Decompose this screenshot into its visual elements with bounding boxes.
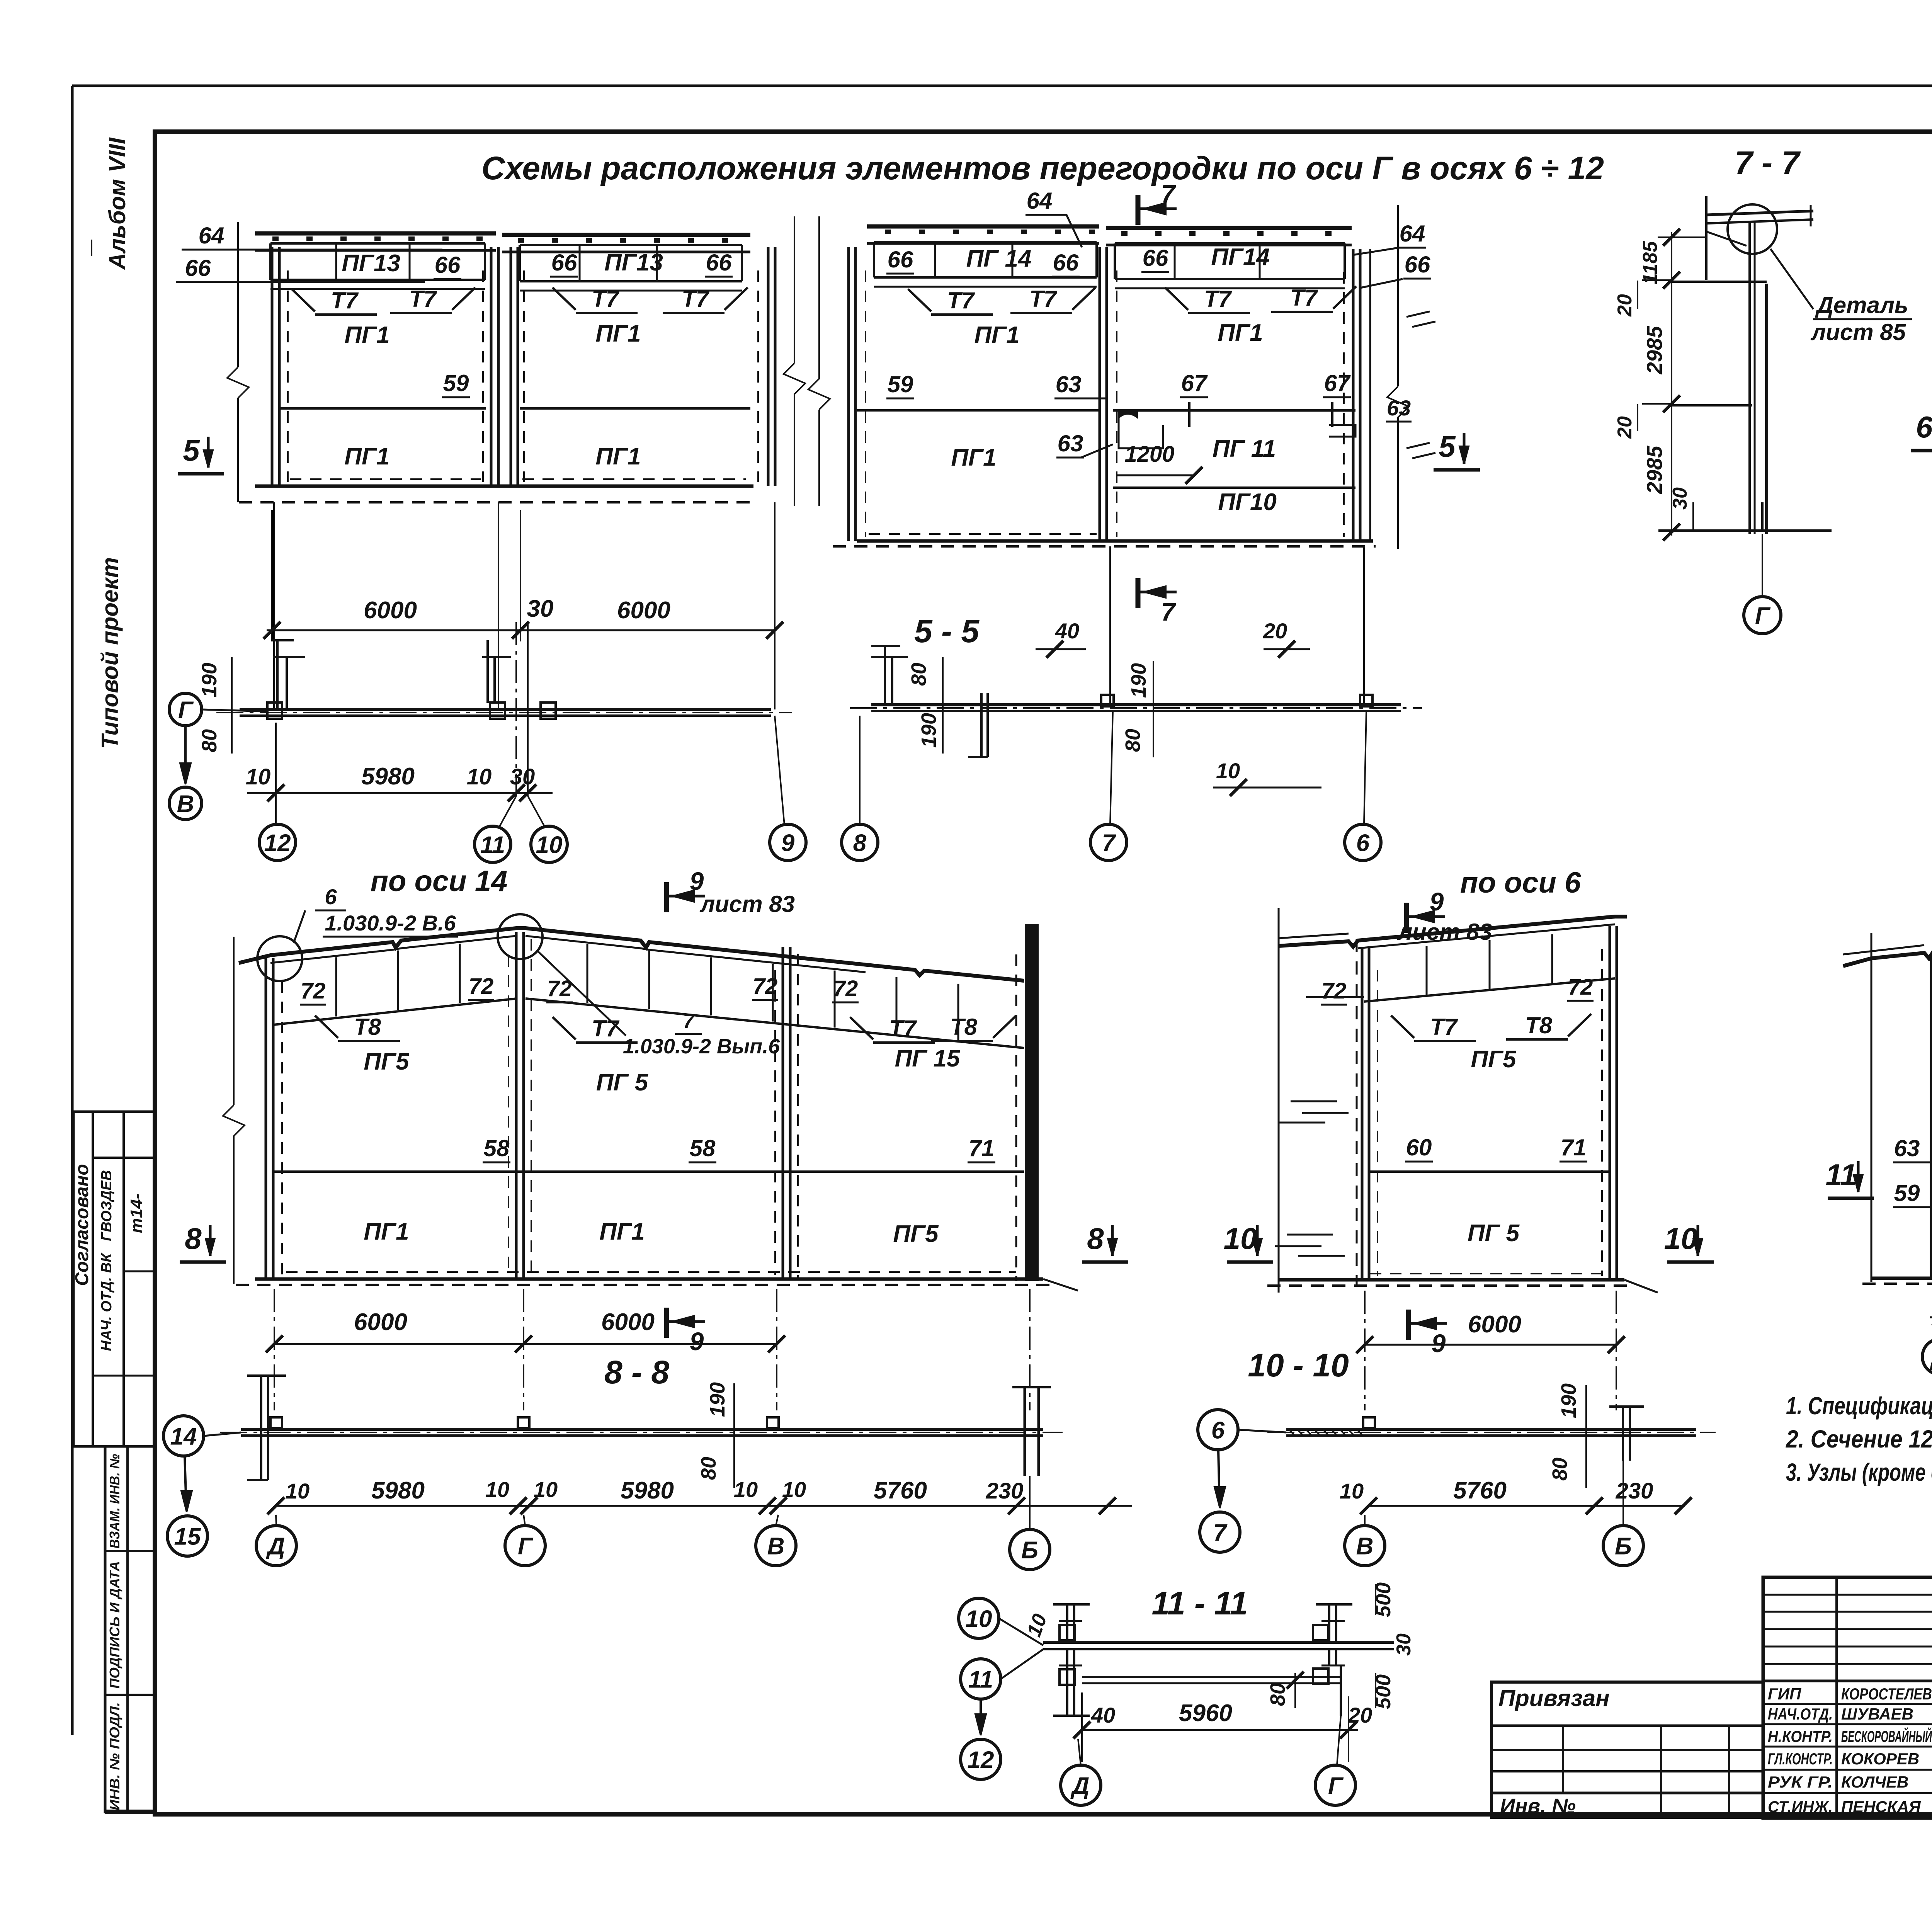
svg-text:ГВОЗДЕВ: ГВОЗДЕВ [99,1170,115,1241]
grid bubbles 8 7 6 [842,824,878,861]
axis connector lines drawing A [273,502,275,709]
svg-text:ПГ1: ПГ1 [1218,320,1263,346]
svg-text:ПГ14: ПГ14 [1211,244,1270,270]
plan 5-5 mid bar [980,693,983,757]
svg-text:1.030.9-2 Вып.6: 1.030.9-2 Вып.6 [623,1035,780,1058]
po osi 14 eave circle [257,936,302,981]
svg-text:8: 8 [853,830,867,856]
svg-text:ГИП: ГИП [1768,1685,1801,1703]
svg-text:6000: 6000 [364,597,417,624]
drawing B door head detail [1119,410,1163,448]
po osi 11 roof [1843,927,1932,966]
po osi 14 interior dashed bottom [286,1271,1016,1273]
svg-text:5980: 5980 [371,1477,425,1504]
svg-text:ПГ 15: ПГ 15 [895,1045,961,1072]
po osi 6 water break marks [1291,1101,1337,1102]
svg-text:ГЛ.КОНСТР.: ГЛ.КОНСТР. [1768,1750,1833,1768]
svg-text:Т7: Т7 [947,287,975,313]
svg-text:8 - 8: 8 - 8 [604,1354,669,1390]
plan 8-8 right heavy column [1024,1387,1026,1476]
svg-text:3. Узлы (кроме оговоренных) ра: 3. Узлы (кроме оговоренных) разработаны … [1786,1458,1932,1486]
plan 11-11 top member [1043,1641,1394,1644]
plan 8-8 dim line [276,1505,1132,1507]
svg-text:10: 10 [467,764,492,789]
drawing A dimension 6000+6000 [267,629,775,631]
svg-text:ПГ1: ПГ1 [599,1218,645,1245]
svg-text:10: 10 [966,1606,992,1632]
po osi 11 columns [1930,954,1932,1278]
plan A left T column [276,640,279,709]
svg-text:58: 58 [690,1135,716,1161]
view arrow G to V [169,693,202,726]
plan A dim line [247,792,553,794]
section 7-7 axis bubble G [1762,534,1763,595]
svg-text:Т8: Т8 [1525,1012,1553,1038]
svg-text:80: 80 [1266,1683,1289,1706]
drawing A bay interior dashed bottoms [290,478,481,480]
po osi 6 section mark 9 bottom [1406,1310,1411,1340]
svg-text:ИНВ. № ПОДЛ.: ИНВ. № ПОДЛ. [107,1702,122,1810]
plan 8-8 left T [260,1376,262,1480]
svg-text:ПГ 14: ПГ 14 [966,245,1032,272]
po osi 6 bottom [1279,1278,1624,1282]
drawing B right break line [1397,205,1399,386]
svg-text:Г: Г [1328,1772,1344,1799]
svg-text:ПГ13: ПГ13 [342,250,400,277]
plan 8-8 marks 14 15 [163,1416,204,1456]
svg-text:30: 30 [527,595,554,622]
svg-text:30: 30 [1393,1633,1415,1656]
svg-text:Б: Б [1615,1533,1632,1560]
svg-text:5: 5 [1439,429,1456,463]
svg-text:Типовой проект: Типовой проект [97,557,123,749]
svg-text:7: 7 [1102,830,1116,856]
svg-text:Д: Д [1070,1772,1090,1799]
plan 11-11 dim line [1082,1729,1358,1731]
svg-text:14: 14 [170,1423,197,1450]
sidebar lower table [105,1446,155,1812]
sidebar table soglasovano [73,1112,155,1446]
svg-text:НАЧ. ОТД. ВК: НАЧ. ОТД. ВК [99,1252,115,1351]
drawing B bottom lines [857,539,1373,543]
svg-text:2. Сечение 12 – 12 замаркиро: 2. Сечение 12 – 12 замаркировано на лист… [1786,1425,1932,1453]
svg-text:ШУВАЕВ: ШУВАЕВ [1841,1705,1913,1723]
svg-text:9: 9 [1430,887,1444,916]
svg-text:7: 7 [1161,179,1177,208]
svg-text:лист 83: лист 83 [699,891,795,917]
svg-text:11: 11 [1826,1158,1857,1192]
svg-text:6000: 6000 [1468,1311,1521,1338]
drawing B panel PG14 bay2 [1115,242,1345,245]
plan 11-11 left column bottom [1066,1649,1068,1716]
po osi 14 left break [233,937,235,1105]
po osi 14 columns [265,958,267,1279]
privyazan box [1492,1682,1763,1817]
svg-text:80: 80 [907,663,930,686]
po osi 14 view marks 8 [209,1225,212,1256]
svg-text:Н.КОНТР.: Н.КОНТР. [1768,1727,1833,1745]
section 7-7 dims [1671,232,1672,536]
svg-text:67: 67 [1181,370,1208,396]
svg-text:60: 60 [1406,1135,1432,1160]
po osi 14 callout 7 / 1.030.9-2 vyp.6 [537,951,626,1036]
svg-text:ПГ1: ПГ1 [364,1218,409,1245]
po osi 14 panel band 72 [274,998,517,1025]
plan 8-8 squares [270,1417,282,1428]
svg-text:5960: 5960 [1179,1700,1232,1726]
svg-text:66: 66 [185,255,211,281]
svg-text:10: 10 [1216,759,1240,783]
svg-text:ВЗАМ. ИНВ. №: ВЗАМ. ИНВ. № [107,1454,122,1549]
svg-text:66: 66 [1053,250,1079,276]
po osi 6 mid line [1369,1170,1611,1173]
po osi 11 boundary lines [1871,933,1872,1282]
section 7-7 detail circle [1728,204,1777,254]
svg-text:Привязан: Привязан [1498,1685,1609,1711]
svg-text:Согласовано: Согласовано [72,1164,92,1286]
svg-text:72: 72 [1568,975,1593,1000]
po osi 14 mid line 58 [274,1170,1024,1173]
svg-text:80: 80 [697,1457,720,1480]
plan strip 5-5 [871,703,1401,706]
po osi 6 section mark 9 top [1404,903,1409,933]
svg-text:1185: 1185 [1639,241,1662,284]
svg-text:Т7: Т7 [409,286,437,312]
po osi 14 section mark 9 bottom [664,1308,669,1338]
svg-text:по оси 14: по оси 14 [371,865,508,898]
svg-text:7 - 7: 7 - 7 [1735,145,1801,181]
svg-text:7: 7 [683,1010,695,1032]
svg-text:5980: 5980 [621,1477,674,1504]
drawing A left boundary break line [237,222,239,367]
svg-text:9: 9 [1432,1329,1446,1357]
svg-text:66: 66 [435,252,461,278]
svg-text:6: 6 [1916,410,1932,444]
plan 8-8 [241,1428,1043,1431]
svg-text:Т7: Т7 [1029,286,1058,312]
svg-text:ПГ 5: ПГ 5 [596,1069,649,1096]
svg-text:6000: 6000 [617,597,670,624]
po osi 14 hats [315,1015,338,1038]
svg-text:10: 10 [782,1477,806,1502]
drawing A plan strip [240,708,771,711]
svg-text:64: 64 [1400,221,1425,247]
svg-text:по оси 6: по оси 6 [1460,866,1581,899]
plan 10-10 [1286,1428,1696,1431]
svg-text:ПГ 11: ПГ 11 [1213,435,1276,462]
svg-text:2985: 2985 [1642,326,1667,374]
svg-text:8: 8 [185,1221,202,1255]
svg-text:80: 80 [1121,729,1145,752]
plan 10-10 dim line [1369,1505,1685,1507]
svg-text:80: 80 [1548,1458,1571,1481]
svg-text:ПГ1: ПГ1 [344,322,389,349]
svg-text:Т7: Т7 [1290,285,1318,311]
svg-text:72: 72 [753,974,778,999]
svg-text:66: 66 [1143,245,1168,271]
svg-text:5760: 5760 [874,1477,927,1504]
plan 11-11 left column top [1066,1604,1068,1642]
drawing B band double bottom lines [874,286,1097,288]
svg-text:71: 71 [1561,1135,1587,1160]
detail callout [1770,249,1813,309]
po osi 6 band 72 [1364,978,1615,1002]
svg-text:Деталь: Деталь [1815,292,1908,318]
svg-text:63: 63 [1058,430,1083,456]
plan 10-10 marks 6 7 [1198,1410,1238,1450]
svg-text:10: 10 [536,832,563,858]
svg-text:Т7: Т7 [1430,1014,1458,1040]
svg-text:8: 8 [1087,1221,1104,1255]
svg-text:80: 80 [198,729,221,752]
svg-text:Г: Г [1755,602,1771,629]
drawing A band double bottom lines [270,288,485,290]
svg-text:т14-: т14- [127,1194,146,1233]
svg-text:КОРОСТЕЛЕВ: КОРОСТЕЛЕВ [1841,1685,1932,1703]
svg-text:7: 7 [1213,1519,1228,1546]
plan 10-10 right piece [1622,1407,1624,1461]
svg-text:7: 7 [1161,597,1177,626]
svg-text:10: 10 [246,764,271,789]
svg-text:20: 20 [1614,294,1636,317]
plan 10-10 axis bubbles V B [1345,1526,1385,1566]
svg-text:1200: 1200 [1124,442,1174,467]
svg-text:5: 5 [183,433,200,467]
svg-text:30: 30 [1669,487,1691,510]
svg-text:Т7: Т7 [592,1015,620,1041]
drawing A panel PG13 band bay1 [270,242,485,245]
plan 11-11 bubbles 10 11 12 [959,1598,999,1638]
svg-text:ПГ1: ПГ1 [344,443,389,470]
svg-text:Инв. №: Инв. № [1500,1795,1576,1818]
svg-text:1.030.9-2 В.6: 1.030.9-2 В.6 [325,911,456,935]
svg-text:5760: 5760 [1453,1477,1507,1504]
svg-text:66: 66 [888,247,913,272]
svg-text:Альбом VIII: Альбом VIII [104,137,130,270]
section 7-7 column [1748,223,1751,534]
svg-text:72: 72 [1321,978,1347,1004]
svg-text:63: 63 [1894,1135,1920,1161]
drawing A panel PG13 band bay2 [520,244,742,246]
drawing A mid joint line 59 [279,407,486,410]
drawing A bottom lines [255,485,753,488]
svg-text:190: 190 [1557,1383,1580,1418]
drawing B section marks 7 [1136,195,1141,225]
axis connector lines drawing B [1109,546,1111,705]
po osi 6 left boundary [1278,908,1280,1293]
drawing B PG10 [1113,486,1355,489]
drawing B bay2 PG11 head line [1113,409,1355,412]
plan 11-11 axis bubbles D G [1061,1765,1101,1805]
svg-text:59: 59 [1894,1180,1920,1206]
plan 8-8 axis bubbles D G V B [256,1526,296,1566]
drawing B T7 hats [908,289,931,311]
plan A right T column [486,640,489,703]
svg-text:ПГ5: ПГ5 [1471,1046,1517,1073]
svg-text:Г: Г [518,1533,534,1560]
svg-text:ПГ 5: ПГ 5 [1468,1220,1520,1247]
svg-text:190: 190 [198,663,221,697]
po osi 6 roof [1279,917,1627,947]
svg-text:58: 58 [484,1135,510,1161]
svg-text:10: 10 [485,1477,509,1502]
po osi 11 bottom [1871,1277,1932,1280]
svg-text:20: 20 [1614,416,1636,439]
svg-text:10 - 10: 10 - 10 [1248,1347,1349,1383]
po osi 6 interior dashed bottom [1370,1273,1605,1274]
svg-text:11 - 11: 11 - 11 [1151,1585,1248,1621]
po osi 6 view marks 10 [1256,1225,1259,1256]
section 7-7 top stub [1705,196,1708,280]
svg-text:Д: Д [266,1533,285,1560]
svg-text:9: 9 [781,830,795,856]
svg-text:Г: Г [178,697,194,723]
po osi 14 right heavy column [1025,924,1039,1281]
svg-text:1. Спецификация элементов и: 1. Спецификация элементов и указания на … [1786,1392,1932,1420]
svg-text:БЕСКОРОВАЙНЫЙ: БЕСКОРОВАЙНЫЙ [1841,1726,1932,1745]
drawing B roof slab band [867,225,1099,229]
svg-text:СТ.ИНЖ.: СТ.ИНЖ. [1768,1798,1833,1816]
drawing A left section mark 5 [207,437,210,468]
svg-text:64: 64 [1027,188,1053,214]
svg-text:72: 72 [833,976,858,1001]
plan 5-5 left T [884,646,886,705]
po osi 14 bottom lines [255,1277,1043,1281]
svg-text:ПГ1: ПГ1 [974,322,1019,349]
svg-text:Т7: Т7 [889,1015,917,1041]
svg-text:10: 10 [1340,1479,1364,1503]
svg-text:КОКОРЕВ: КОКОРЕВ [1841,1750,1919,1768]
svg-text:5980: 5980 [361,763,415,790]
svg-text:40: 40 [1091,1703,1115,1727]
svg-text:КОЛЧЕВ: КОЛЧЕВ [1841,1773,1908,1791]
svg-text:190: 190 [706,1382,729,1417]
svg-text:ПОДПИСЬ И ДАТА: ПОДПИСЬ И ДАТА [107,1561,122,1689]
svg-text:66: 66 [551,250,577,276]
svg-text:Т7: Т7 [682,286,710,312]
svg-text:63: 63 [1056,371,1082,397]
po osi 14 roofline [239,928,1024,981]
drawing A columns [271,247,274,486]
svg-text:РУК ГР.: РУК ГР. [1768,1773,1833,1791]
svg-text:ПГ1: ПГ1 [951,444,996,471]
svg-text:ПГ1: ПГ1 [595,443,641,470]
plan A column squares [267,703,282,719]
svg-text:67: 67 [1324,370,1351,396]
po osi 6 hats [1391,1015,1414,1038]
svg-text:10: 10 [1224,1221,1257,1255]
po osi 11 axis bubbles D G [1922,1339,1932,1374]
svg-text:ПЕНСКАЯ: ПЕНСКАЯ [1841,1798,1921,1816]
svg-text:20: 20 [1263,619,1287,643]
po osi 14 ridge circle [498,914,543,959]
plan 11-11 right pieces [1328,1604,1330,1642]
svg-text:20: 20 [1348,1703,1372,1727]
svg-text:40: 40 [1055,619,1079,643]
svg-text:5 - 5: 5 - 5 [914,613,980,649]
svg-text:6: 6 [1356,830,1370,856]
svg-text:Т8: Т8 [354,1014,381,1040]
svg-text:Б: Б [1021,1537,1038,1563]
svg-text:72: 72 [469,974,494,999]
svg-text:59: 59 [443,370,469,396]
svg-text:В: В [1356,1533,1374,1560]
svg-text:2985: 2985 [1642,446,1667,494]
drawing B mid line labels [857,409,1100,412]
grid bubbles 12 11 10 9 [259,824,296,861]
break lines between A and B [794,216,795,363]
po osi 11 view marks 11 [1857,1161,1860,1192]
svg-text:ПГ5: ПГ5 [893,1221,939,1247]
outer border [72,85,1932,87]
drawing B right section mark 5 [1463,433,1466,464]
plan 11-11 lower member [1082,1676,1341,1678]
po osi 14 section mark 9 top [664,882,669,912]
svg-text:190: 190 [1127,663,1150,698]
svg-text:64: 64 [199,223,224,248]
svg-text:НАЧ.ОТД.: НАЧ.ОТД. [1768,1705,1833,1723]
svg-text:66: 66 [1405,252,1430,277]
svg-text:Т7: Т7 [1204,286,1232,312]
svg-text:6000: 6000 [601,1309,655,1335]
svg-text:6000: 6000 [354,1309,407,1335]
svg-text:Т7: Т7 [592,286,620,312]
plan 5-5 squares [1101,695,1114,706]
svg-text:Т8: Т8 [950,1014,978,1040]
svg-text:230: 230 [986,1478,1024,1504]
po osi 6 dashed inner vert [1356,939,1358,1287]
svg-text:12: 12 [264,830,291,856]
svg-text:Т7: Т7 [331,287,359,313]
svg-text:11: 11 [480,832,505,858]
svg-text:лист 85: лист 85 [1810,319,1906,345]
svg-text:66: 66 [706,250,732,276]
svg-text:10: 10 [734,1477,758,1502]
svg-text:9: 9 [690,1327,704,1356]
svg-text:30: 30 [510,764,535,789]
signature table [1763,1577,1932,1818]
svg-text:71: 71 [969,1135,995,1161]
svg-text:59: 59 [888,371,913,397]
svg-text:190: 190 [917,713,940,748]
drawing B panel PG14 bay1 [874,241,1097,243]
svg-text:Схемы расположения элементов: Схемы расположения элементов перегородки… [481,150,1604,186]
svg-text:72: 72 [301,978,326,1004]
svg-text:12: 12 [968,1747,994,1773]
svg-text:В: В [177,791,194,817]
svg-text:15: 15 [174,1523,201,1550]
section 7-7 rails [1672,281,1767,283]
svg-text:10: 10 [286,1479,310,1503]
drawing A T7 hats [292,289,315,311]
svg-text:6: 6 [1211,1417,1225,1444]
svg-text:ПГ5: ПГ5 [364,1048,410,1075]
svg-text:11: 11 [968,1666,993,1693]
svg-text:ПГ1: ПГ1 [595,320,641,347]
drawing B bay interior dashed bottoms [869,533,1097,535]
svg-text:ПГ10: ПГ10 [1218,489,1277,515]
svg-text:230: 230 [1616,1478,1653,1504]
drawing A roof slab band [255,231,496,236]
po osi 6 columns [1361,947,1364,1280]
svg-text:10: 10 [534,1477,558,1502]
svg-text:В: В [767,1533,785,1560]
svg-text:ПГ13: ПГ13 [604,249,663,276]
drawing B columns [847,247,850,541]
section 7-7 roof plate sloped [1707,211,1813,215]
svg-text:6: 6 [325,885,337,909]
svg-text:10: 10 [1664,1221,1698,1255]
